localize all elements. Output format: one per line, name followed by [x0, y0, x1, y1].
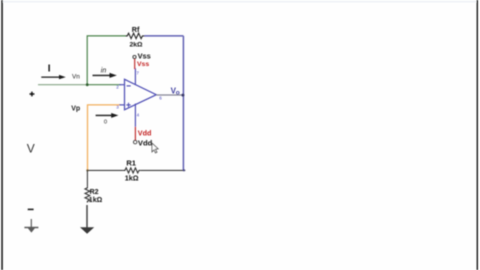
svg-text:V: V — [27, 142, 35, 156]
svg-text:o: o — [176, 89, 180, 96]
wire: R1 right lead — [140, 169, 185, 171]
terminal circle Vdd — [133, 140, 137, 144]
svg-text:3: 3 — [116, 105, 119, 110]
svg-text:Vdd: Vdd — [138, 138, 153, 147]
svg-text:4: 4 — [137, 112, 140, 117]
ground left shaft — [30, 219, 32, 228]
svg-text:Vss: Vss — [138, 52, 151, 61]
label plus sign — [30, 92, 35, 97]
svg-text:1kΩ: 1kΩ — [89, 197, 103, 204]
arrow in — [93, 74, 111, 76]
svg-text:2kΩ: 2kΩ — [129, 42, 143, 49]
node: output junction dot — [181, 94, 184, 97]
wire: green to inverting pin — [87, 84, 121, 86]
wire: orange from non-inverting pin down to R1/R2 node — [88, 105, 121, 170]
svg-text:1kΩ: 1kΩ — [125, 173, 139, 182]
label minus sign — [28, 208, 34, 210]
svg-text:R1: R1 — [126, 159, 136, 168]
terminal circle Vss — [133, 55, 136, 58]
node: feedback bus corner dot — [183, 169, 185, 171]
wire: R1 left lead — [88, 169, 124, 171]
mouse cursor — [152, 143, 158, 153]
frame right border — [477, 0, 478, 270]
svg-text:Vn: Vn — [72, 74, 80, 81]
arrow 0 — [96, 114, 113, 116]
ground left arrow — [24, 227, 38, 233]
svg-text:0: 0 — [104, 120, 107, 126]
wire: R2 bottom lead — [86, 205, 88, 229]
pin 4 stub blue — [134, 104, 136, 127]
op-amp plus mark — [126, 103, 130, 107]
svg-text:6: 6 — [159, 95, 162, 100]
svg-text:7: 7 — [136, 71, 139, 76]
resistor R1 — [123, 168, 140, 173]
arrow under I — [41, 76, 60, 78]
node: R1/R2/orange junction — [86, 169, 88, 171]
wire: output to bus — [156, 94, 183, 96]
wire: blue from Rf to right — [145, 35, 184, 37]
wire: blue vertical output bus — [182, 36, 184, 171]
pin 7 stub blue — [134, 68, 136, 84]
wire: green feedback, junction up and across to Rf — [87, 36, 125, 85]
svg-text:2: 2 — [116, 85, 119, 90]
ground arrow (0) — [80, 227, 94, 233]
wire: R2 top lead — [86, 170, 88, 186]
svg-text:Rf: Rf — [132, 25, 140, 34]
pin 2 stub — [119, 84, 124, 86]
wire: red Vss lead — [134, 59, 137, 69]
svg-text:Vp: Vp — [71, 105, 80, 112]
svg-text:I: I — [48, 64, 51, 75]
frame top edge — [3, 1, 476, 2]
frame left border — [1, 0, 3, 270]
node: inverting junction dot — [86, 83, 89, 86]
resistor R2 — [85, 187, 90, 203]
pin 3 stub — [119, 104, 124, 106]
wire: input wire pale segment — [38, 84, 87, 86]
svg-text:R2: R2 — [90, 189, 99, 196]
svg-text:in: in — [101, 67, 107, 74]
op-amp U1 triangle — [125, 79, 157, 110]
svg-text:Vss: Vss — [137, 61, 149, 68]
op-amp minus mark — [127, 85, 131, 87]
resistor Rf — [126, 33, 145, 38]
wire: red Vdd lead — [134, 127, 136, 140]
svg-text:Vdd: Vdd — [138, 128, 152, 137]
